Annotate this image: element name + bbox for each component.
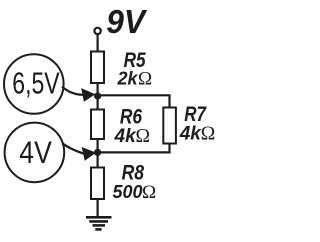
svg-text:9V: 9V <box>106 4 147 41</box>
svg-text:Ω: Ω <box>136 126 151 147</box>
svg-text:4k: 4k <box>114 126 138 147</box>
svg-text:Ω: Ω <box>138 69 152 90</box>
svg-text:500: 500 <box>113 182 143 202</box>
svg-text:4V: 4V <box>19 134 52 170</box>
svg-text:Ω: Ω <box>201 124 216 145</box>
svg-text:Ω: Ω <box>142 182 156 203</box>
svg-text:4k: 4k <box>179 124 203 145</box>
svg-text:6,5V: 6,5V <box>12 66 60 100</box>
svg-text:2k: 2k <box>117 69 139 89</box>
